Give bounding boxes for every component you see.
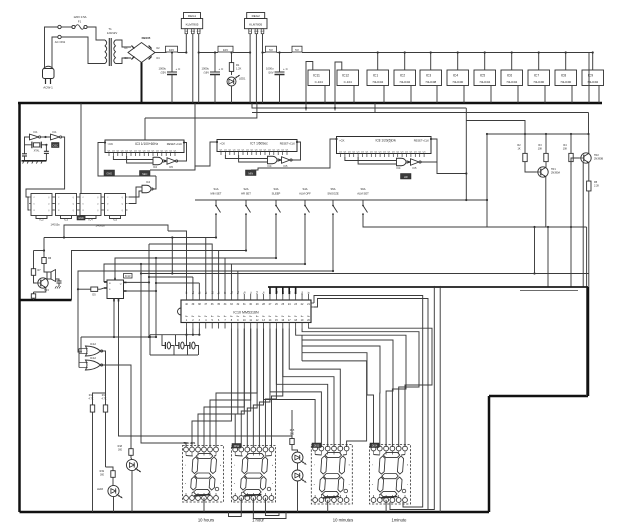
node label 10V <box>166 46 178 52</box>
gate IC7-B <box>282 157 291 164</box>
wire REG2 legs down <box>249 34 251 103</box>
wire IC7 feedback2 <box>239 155 268 162</box>
svg-text:HR SET: HR SET <box>241 191 251 195</box>
capacitor C16 trim <box>24 145 26 154</box>
svg-text:>CK: >CK <box>108 142 114 146</box>
wire IC7 clock input <box>215 141 218 143</box>
regulator REG1 KLM7805 <box>184 13 201 19</box>
counter IC8 body <box>337 137 432 154</box>
svg-text:IC3: IC3 <box>426 74 431 78</box>
IC10 bottom pin stubs <box>186 323 188 329</box>
svg-text:DIS4: DIS4 <box>372 444 378 447</box>
svg-text:IC4: IC4 <box>153 166 158 169</box>
svg-text:IC4: IC4 <box>453 74 458 78</box>
wire IC3 reset loop <box>177 143 187 162</box>
wire TR2 base from R4 <box>571 158 580 165</box>
divider IC3 flip-flop <box>56 194 77 216</box>
wire S6A drop <box>363 217 587 228</box>
wire IC7 gate link <box>278 159 281 161</box>
wire IC3 clock input <box>103 142 106 144</box>
node label 5V second <box>292 46 302 52</box>
transformer T1 <box>105 40 107 64</box>
svg-text:SLEEP: SLEEP <box>272 191 281 195</box>
svg-text:10K: 10K <box>538 148 543 151</box>
node label MIN <box>246 170 257 176</box>
wire IC7 feedback1 <box>225 155 267 159</box>
svg-text:IC10 MM5316N: IC10 MM5316N <box>233 311 259 315</box>
wire stair S2A to IC10 <box>218 251 220 295</box>
bypass block IC8 <box>555 70 577 86</box>
svg-text:IC8 1/20(6)Div: IC8 1/20(6)Div <box>375 139 396 143</box>
wire IC13 pin to colon resistor run <box>119 302 293 437</box>
wire IC3 feedback2 <box>127 156 153 163</box>
svg-text:>CK: >CK <box>339 139 345 143</box>
wire rail segment 2b <box>233 52 250 54</box>
resistor R7 <box>33 251 35 267</box>
LED3 <box>108 485 119 496</box>
svg-text:IC7: IC7 <box>534 74 539 78</box>
gate IC3-A <box>153 157 163 165</box>
svg-text:C-104: C-104 <box>315 80 324 84</box>
wire wrap top 2 <box>314 299 428 510</box>
svg-text:SEC: SEC <box>142 172 147 176</box>
svg-text:1000u: 1000u <box>159 67 167 71</box>
wire IC3 gate link <box>164 160 167 162</box>
wire 5V feed right vertical <box>588 53 590 104</box>
hook wire IC12 block <box>335 62 342 111</box>
display D4 1-minute bottom pads <box>371 498 376 503</box>
crystal X1 <box>33 143 39 147</box>
svg-text:+ C: + C <box>176 67 182 71</box>
wire wrap D4 feed 4 <box>302 340 393 447</box>
wire osc feedback to crystal <box>25 137 32 145</box>
wire IC8 gate link <box>407 161 410 163</box>
display D4 1-minute top pads <box>371 446 376 451</box>
display D2 1-hour segments <box>246 453 264 458</box>
display D1 10-hours top pads <box>184 447 189 452</box>
wire wrap D3 last feed <box>302 361 367 447</box>
svg-text:1K: 1K <box>517 148 520 151</box>
wire top distribution 1 <box>145 103 257 118</box>
svg-text:74HC04: 74HC04 <box>372 80 383 84</box>
bypass block IC3 <box>420 70 442 86</box>
svg-text:DIS2: DIS2 <box>234 445 240 448</box>
svg-text:74HC04: 74HC04 <box>506 80 517 84</box>
bypass block IC4 <box>447 70 469 86</box>
wire wrap D4 feed 6 <box>302 353 374 447</box>
wire divider out to gate <box>129 187 143 204</box>
regulator REG2 KLM7805 <box>247 13 265 19</box>
wire from IC12 area to caps <box>81 336 156 338</box>
IC13 pins <box>104 281 107 283</box>
wire gate IC4a output right <box>152 176 156 189</box>
wire rail segment 3b <box>277 52 293 54</box>
bridge rectifier BR1 <box>128 43 155 63</box>
wire IC3 feedback1 <box>113 156 153 160</box>
svg-text:R1: R1 <box>236 63 240 67</box>
wire fuse to transformer primary <box>87 27 105 40</box>
IC10 MM5316N body <box>181 300 311 323</box>
svg-text:10 hours: 10 hours <box>198 518 214 523</box>
svg-text:/25V: /25V <box>160 71 166 75</box>
wire rail segment 3 <box>263 52 266 54</box>
display D1 10-hours decimal point <box>215 487 219 491</box>
svg-text:1000u: 1000u <box>266 67 274 71</box>
wire IC12a output <box>100 351 106 393</box>
wire wrap D4 feed 5 <box>302 346 380 447</box>
wire wrap D4 feed 1 <box>308 328 432 447</box>
svg-text:S6A: S6A <box>360 187 365 191</box>
ground bus notch horizontal <box>489 395 588 398</box>
ground bus top rail <box>18 102 602 105</box>
ground bar osc <box>22 160 47 162</box>
counter IC7 body <box>217 140 297 152</box>
wire rail segment 2a <box>199 52 218 54</box>
svg-text:2N390A: 2N390A <box>551 172 560 175</box>
svg-text:GND: GND <box>106 171 112 175</box>
node label GND <box>104 170 115 176</box>
svg-text:XTAL: XTAL <box>34 150 40 153</box>
display module D3 10-minutes outline <box>311 445 352 505</box>
wire top pin 40 long run <box>168 231 187 294</box>
display D4 1-minute segments <box>383 452 400 457</box>
svg-text:IC7 1/60Sec: IC7 1/60Sec <box>250 142 268 146</box>
wire TR4 base <box>34 278 37 283</box>
resistor R6 <box>43 255 45 257</box>
capacitor C14 1000u/16V <box>214 53 216 73</box>
svg-text:300: 300 <box>118 449 123 452</box>
wire caps top rail <box>150 334 199 336</box>
wire feed to transistor rail <box>588 113 590 135</box>
svg-text:IC1: IC1 <box>33 130 38 134</box>
svg-text:IC8: IC8 <box>561 74 566 78</box>
wire IC7 reset loop <box>291 142 300 160</box>
wire rail segment 4 to right <box>302 52 593 54</box>
display module D4 1-minute outline <box>370 445 411 505</box>
svg-text:S5A: S5A <box>330 187 335 191</box>
svg-text:IC1: IC1 <box>373 74 378 78</box>
svg-text:10V: 10V <box>169 48 174 52</box>
svg-text:RESET+CLK: RESET+CLK <box>414 139 429 143</box>
wire 5V drop to IC8 zone <box>305 108 307 111</box>
svg-text:ALM SET: ALM SET <box>357 191 369 195</box>
capacitor C17 trim <box>45 145 47 152</box>
svg-text:hf: hf <box>308 291 311 293</box>
svg-text:74HC04: 74HC04 <box>479 80 490 84</box>
wire stair IC13 link <box>149 244 212 294</box>
display D3 10-minutes internal wires <box>315 454 321 457</box>
wire LED2 down <box>131 470 133 512</box>
counter IC8 pin row <box>340 154 342 158</box>
wire REG1 out leg <box>198 34 200 103</box>
svg-text:TME HRS: TME HRS <box>184 441 196 445</box>
wire IC8 clock input <box>334 138 337 140</box>
LED4 colon upper <box>292 452 303 463</box>
wire IC3 input from divider <box>98 143 156 177</box>
capacitor C15 1000u/16V <box>279 53 281 73</box>
wire rail segment 1 <box>178 52 187 54</box>
wire switch rail corner drop <box>486 134 488 227</box>
counter IC7 pin row <box>220 152 222 156</box>
svg-text:MIN: MIN <box>248 171 253 175</box>
wire divider chain links <box>53 203 56 205</box>
svg-text:IC12: IC12 <box>342 74 349 78</box>
wire S1A drop <box>44 217 216 238</box>
divider IC4 flip-flop <box>80 194 101 216</box>
wire left vertical to display1 pad <box>141 264 186 447</box>
ground bus bottom rail <box>20 511 490 514</box>
ground bus notch vertical right <box>488 396 491 512</box>
bypass block IC1 <box>367 70 389 86</box>
svg-text:IC12: IC12 <box>90 356 96 360</box>
wire IC7 supply drop <box>194 103 196 170</box>
gate IC12a <box>86 346 101 356</box>
LED2 <box>126 459 137 470</box>
IC13 label <box>124 274 133 279</box>
wire stub line right cluster <box>520 290 578 292</box>
wire IC8 feedback2 <box>358 157 396 164</box>
wire REG1 input leg <box>185 34 187 53</box>
wire fan group display3 <box>264 329 316 448</box>
resistor R8 <box>33 292 35 294</box>
svg-text:2.2K: 2.2K <box>594 185 599 188</box>
wire extra right verticals to bottom <box>413 287 434 510</box>
svg-text:F1: F1 <box>78 20 82 24</box>
svg-text:REG2: REG2 <box>252 14 261 18</box>
wire IC12 feed from left <box>78 351 82 353</box>
bypass block IC9 <box>582 70 604 86</box>
wire TR1 emitter down <box>545 177 547 227</box>
display module D2 1-hour outline <box>232 446 276 503</box>
wire wrap top 1 <box>314 296 423 508</box>
svg-text:LED3: LED3 <box>97 488 104 491</box>
svg-text:10 minutes: 10 minutes <box>333 518 353 523</box>
wire secondary to bridge <box>116 40 132 47</box>
svg-text:74HC08: 74HC08 <box>425 80 436 84</box>
LED1 power indicator <box>227 77 236 86</box>
display D1 10-hours bottom pads <box>184 496 189 501</box>
transistor TR1 2N3904 <box>538 167 548 177</box>
svg-text:300: 300 <box>100 474 105 477</box>
svg-text:10V: 10V <box>223 48 228 52</box>
wire between inverters <box>41 136 51 138</box>
gate IC8-B <box>411 159 420 166</box>
wire cluster drops <box>534 227 536 274</box>
wire IC3 to IC7 link <box>150 142 215 170</box>
display D4 1-minute decimal point <box>402 489 406 493</box>
svg-text:+ C: + C <box>283 67 289 71</box>
wire S4A drop <box>104 217 305 282</box>
ground bus right vertical <box>587 287 590 396</box>
LED5 colon lower <box>292 470 303 481</box>
wire bridge minus to ground rail (bold) <box>141 63 143 104</box>
wire bridge plus to 9V rail <box>155 52 167 54</box>
svg-text:C-104: C-104 <box>344 80 353 84</box>
wire switch rail <box>195 199 487 201</box>
IC10 top pin stubs <box>186 294 188 300</box>
divider feedback loops bottom <box>36 216 47 219</box>
AC ON switch S0 <box>52 37 58 69</box>
svg-text:IC4: IC4 <box>397 167 402 170</box>
wire IC12b output <box>100 365 131 446</box>
gate IC3-B <box>167 158 176 165</box>
wire IC8 feedback1 <box>345 157 397 161</box>
gate IC7-A <box>268 156 278 164</box>
wire stair S1A to IC10 <box>205 238 207 295</box>
svg-text:120/12V: 120/12V <box>107 31 118 35</box>
bypass block IC7 <box>528 70 550 86</box>
svg-text:IC13: IC13 <box>125 274 131 278</box>
capacitor C20 below IC10 <box>176 335 179 346</box>
capacitor C21 below IC10 <box>187 335 190 346</box>
connector J1 <box>58 25 61 28</box>
svg-text:DIS3: DIS3 <box>314 444 320 447</box>
bypass block IC11 <box>308 70 330 86</box>
fuse F1 <box>72 25 75 28</box>
svg-text:ACW-1: ACW-1 <box>43 86 53 90</box>
wire IC8 top supply <box>374 103 376 113</box>
svg-text:5V: 5V <box>269 48 273 52</box>
display D2 1-hour internal wires <box>235 455 242 458</box>
svg-text:S3A: S3A <box>273 187 278 191</box>
ground spur bottom-left <box>20 299 72 302</box>
divider IC2 flip-flop <box>31 194 52 216</box>
node label 10V second <box>218 46 233 52</box>
display module D1 10-hours outline <box>183 446 224 503</box>
capacitor C19 below IC10 <box>162 335 165 346</box>
svg-text:10K: 10K <box>563 148 568 151</box>
transistor TR4 driver <box>38 278 48 288</box>
svg-text:1000u: 1000u <box>202 67 210 71</box>
display D3 10-minutes bottom pads <box>313 498 318 503</box>
svg-text:LED1: LED1 <box>239 77 246 81</box>
wire top distribution 2 <box>144 118 146 140</box>
wire TR1 collector to R3 <box>545 165 547 167</box>
svg-text:Q: Q <box>120 283 122 285</box>
wire speaker connections <box>44 266 49 272</box>
wire loop to IC8 area <box>466 121 525 135</box>
svg-text:1minute: 1minute <box>392 518 408 523</box>
svg-text:1.2K: 1.2K <box>236 67 242 71</box>
wire IC8 reset loop <box>420 139 437 162</box>
display D4 1-minute internal wires <box>374 454 380 457</box>
wire wrap D4 feed 3 <box>296 329 406 448</box>
gate IC8-A <box>397 158 407 166</box>
svg-text:AC ON1: AC ON1 <box>55 40 66 44</box>
svg-text:5V: 5V <box>295 48 299 52</box>
wire S3A drop <box>115 217 276 278</box>
wire R7 top tap <box>34 250 45 252</box>
wire IC13 bottom pins down <box>113 302 115 338</box>
svg-text:/16V: /16V <box>268 71 274 75</box>
svg-text:DB105: DB105 <box>142 36 151 40</box>
bypass block IC2 <box>394 70 416 86</box>
svg-text:1/4013a: 1/4013a <box>50 224 60 227</box>
wire IC13 right pins out <box>127 281 150 283</box>
wire stair extra vertical <box>171 238 173 274</box>
wire TR2 collector <box>588 134 590 153</box>
svg-text:IC2: IC2 <box>400 74 405 78</box>
speaker SPK1 <box>47 272 51 279</box>
svg-text:IC5: IC5 <box>169 166 174 169</box>
node label GND divider <box>77 216 85 221</box>
diode D5 into IC13 <box>78 288 88 290</box>
IC10 bold supply bus <box>268 286 588 288</box>
display D3 10-minutes top pads <box>313 446 318 451</box>
wire S2A drop <box>72 217 247 301</box>
wire fan group display1 <box>192 329 231 448</box>
svg-text:S2A: S2A <box>243 187 248 191</box>
svg-text:REG1: REG1 <box>188 14 197 18</box>
transistor TR2 2N3906 <box>581 153 591 163</box>
display D2 1-hour bottom pads <box>233 496 238 501</box>
svg-text:74HC02: 74HC02 <box>399 80 410 84</box>
svg-text:RESET+CLK: RESET+CLK <box>280 142 295 146</box>
svg-text:IC5: IC5 <box>413 167 418 170</box>
wire switch to transformer primary bottom <box>61 37 105 64</box>
svg-text:S1A: S1A <box>213 187 218 191</box>
wire caps bottom rail <box>150 354 198 356</box>
node label SEC <box>140 171 151 177</box>
resistor R1 1.2K <box>231 53 233 60</box>
wire IC12 inputs <box>79 348 88 350</box>
svg-text:+ C: + C <box>219 67 225 71</box>
svg-text:IC11: IC11 <box>313 74 320 78</box>
hook wire IC11 block <box>306 62 313 111</box>
bypass block IC6 <box>501 70 523 86</box>
wire IC8 gate tap <box>437 162 466 174</box>
svg-text:S4A: S4A <box>302 187 307 191</box>
svg-text:IC3 1/100+60Hz: IC3 1/100+60Hz <box>135 142 159 146</box>
node label 5V <box>266 46 277 52</box>
wire fan group display2 <box>235 329 244 448</box>
counter IC3 body <box>105 140 184 153</box>
wire display2 bottom loops <box>229 498 242 517</box>
wire IC10 right pin stubs <box>311 302 314 304</box>
svg-text:KLM7805: KLM7805 <box>249 23 262 27</box>
wire driver feed <box>43 238 45 256</box>
wire colon chain <box>292 447 298 452</box>
display D3 10-minutes decimal point <box>344 489 348 493</box>
svg-text:/16V: /16V <box>203 71 209 75</box>
svg-text:IC5: IC5 <box>480 74 485 78</box>
display D3 10-minutes segments <box>325 452 342 457</box>
svg-text:>CK: >CK <box>220 142 226 146</box>
svg-text:IC1: IC1 <box>52 130 57 134</box>
display D1 10-hours segments <box>196 453 213 458</box>
wire top distribution 3 <box>252 103 466 108</box>
svg-text:HR: HR <box>404 175 408 179</box>
AC plug P1 <box>43 69 55 79</box>
svg-text:IC6: IC6 <box>507 74 512 78</box>
svg-text:74HC90: 74HC90 <box>533 80 544 84</box>
svg-text:MIN SET: MIN SET <box>211 191 222 195</box>
gate IC12b <box>86 360 101 370</box>
bypass block IC12 <box>337 70 359 86</box>
wire stair S4A to IC10 <box>230 264 232 294</box>
wire to fuse <box>61 26 72 28</box>
wire osc output down to divider <box>26 137 65 197</box>
wire S5A drop <box>78 217 333 353</box>
display D2 1-hour top pads <box>233 447 238 452</box>
svg-text:2N390B: 2N390B <box>594 158 603 161</box>
svg-text:SNOOZE: SNOOZE <box>327 191 339 195</box>
node label HR <box>401 174 412 180</box>
wire display1 bottom to rail <box>203 498 205 512</box>
wire osc supply vertical <box>80 103 82 194</box>
wire stair verticals from IC13 outputs <box>148 244 150 337</box>
svg-text:ALM OFF: ALM OFF <box>299 191 311 195</box>
